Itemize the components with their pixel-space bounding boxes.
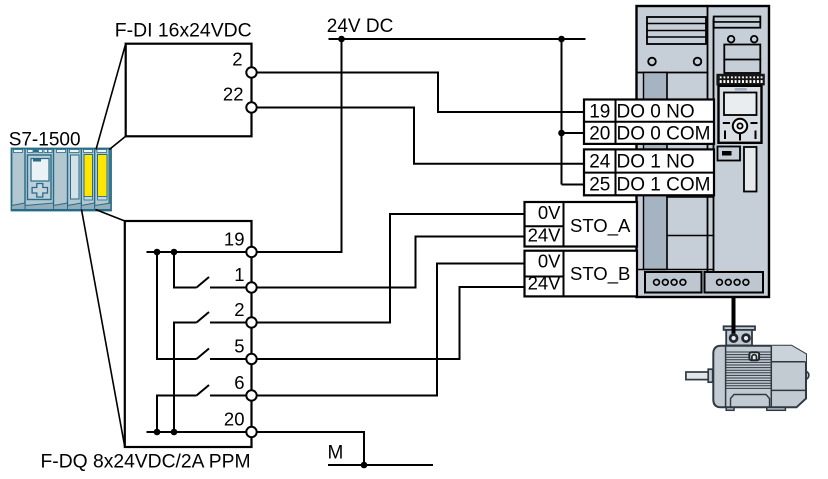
magnifier line F-DQ right: [96, 210, 125, 222]
motor base recess: [731, 395, 770, 408]
motor feet: [726, 404, 734, 410]
junction DO COM rail branch: [558, 130, 565, 137]
svg-text:DO 0 COM: DO 0 COM: [617, 124, 711, 145]
junction on 24V bus at DO COM rail: [558, 36, 565, 43]
junction terminal 19 rail A: [154, 249, 161, 256]
terminal F-DQ 1: [246, 282, 256, 292]
magnifier line F-DI bottom: [109, 136, 125, 149]
motor cable: [732, 297, 736, 334]
wire 24V bus to DO COM rail: [562, 39, 585, 185]
STO_A safety input terminal box: [525, 202, 638, 247]
wire rail 19 to switch S5: [157, 252, 197, 359]
node 24V DC bus: [329, 38, 586, 40]
motor end bump: [800, 371, 809, 380]
svg-text:6: 6: [234, 372, 244, 393]
svg-text:STO_B: STO_B: [570, 263, 630, 285]
svg-text:24: 24: [589, 152, 611, 173]
svg-text:24V: 24V: [528, 273, 562, 294]
wire F-DQ 2 to STO_A 0V: [257, 214, 525, 323]
drive U1 (SINAMICS converter): [637, 6, 770, 297]
svg-text:20: 20: [589, 124, 610, 145]
svg-text:0V: 0V: [538, 251, 561, 272]
svg-text:20: 20: [224, 409, 245, 430]
svg-text:25: 25: [589, 174, 610, 195]
wire terminal 19 feed line: [147, 251, 247, 253]
junction terminal 19 rail B: [171, 249, 178, 256]
wire F-DQ 6 to STO_B 0V: [257, 264, 525, 396]
wire rail 20 to switch S6: [157, 396, 197, 433]
svg-text:5: 5: [234, 336, 244, 357]
magnifier line F-DQ left: [82, 210, 125, 448]
motor emblem: [749, 352, 759, 360]
junction terminal 20 rail D: [171, 429, 178, 436]
junction terminal 20 rail C: [154, 429, 161, 436]
terminal F-DI 22: [246, 102, 256, 112]
svg-text:DO 0 NO: DO 0 NO: [617, 102, 695, 123]
motor body: [713, 346, 806, 408]
junction on 24V bus at FDQ19 rail: [338, 36, 345, 43]
motor terminal box: [724, 326, 755, 330]
svg-text:24V DC: 24V DC: [327, 16, 394, 37]
node M ground line: [328, 464, 433, 466]
wire S2 to terminal 2: [210, 322, 246, 324]
svg-text:DO 1 COM: DO 1 COM: [617, 174, 711, 195]
switch S2 blade: [197, 312, 210, 323]
drive terminal block left: [645, 272, 702, 293]
svg-text:M: M: [328, 443, 344, 464]
svg-text:0V: 0V: [538, 202, 561, 223]
wire F-DQ 20 to M ground: [257, 432, 364, 465]
terminal F-DQ 6: [246, 390, 256, 400]
motor M1: [686, 324, 809, 410]
PLC S7-1500: [12, 149, 112, 211]
svg-text:19: 19: [589, 102, 610, 123]
drive terminal block right: [705, 272, 764, 293]
DO 1 relay output terminal box: [584, 149, 714, 195]
svg-text:22: 22: [223, 84, 244, 105]
svg-text:S7-1500: S7-1500: [9, 129, 81, 150]
svg-text:1: 1: [234, 264, 244, 285]
STO_B safety input terminal box: [525, 251, 638, 297]
svg-text:19: 19: [224, 229, 245, 250]
wire terminal 20 return line: [147, 431, 247, 433]
F-DQ module box: [125, 221, 252, 447]
wire rail 19 to switch S1: [174, 252, 197, 288]
svg-text:STO_A: STO_A: [570, 215, 631, 237]
svg-text:2: 2: [232, 49, 242, 70]
motor shaft: [686, 372, 713, 380]
switch S5 blade: [197, 349, 210, 360]
terminal F-DQ 5: [246, 354, 256, 364]
switch S1 blade: [197, 277, 210, 288]
switch S6 blade: [197, 385, 210, 396]
wire S5 to terminal 5: [210, 358, 246, 360]
drive operator panel: [716, 74, 764, 86]
svg-text:F-DQ 8x24VDC/2A PPM: F-DQ 8x24VDC/2A PPM: [41, 452, 251, 473]
terminal F-DI 2: [246, 67, 256, 77]
svg-text:24V: 24V: [528, 225, 562, 246]
wire rail 20 to switch S2: [174, 323, 197, 433]
terminal F-DQ 20: [246, 427, 256, 437]
wire S1 to terminal 1: [210, 287, 246, 289]
wire F-DQ 1 to STO_A 24V: [257, 237, 525, 288]
terminal F-DQ 2: [246, 317, 256, 327]
wire F-DI 22 to DO 1 NO: [257, 108, 584, 164]
svg-text:DO 1 NO: DO 1 NO: [617, 152, 695, 173]
wire F-DQ 5 to STO_B 24V: [257, 287, 525, 359]
svg-text:2: 2: [234, 299, 244, 320]
junction M ground node: [361, 462, 368, 469]
F-DI module box: [126, 44, 252, 137]
terminal F-DQ 19: [246, 247, 256, 257]
DO 0 relay output terminal box: [584, 100, 714, 144]
wire F-DI 2 to DO 0 NO: [257, 73, 584, 113]
svg-text:F-DI 16x24VDC: F-DI 16x24VDC: [115, 19, 252, 41]
wire S6 to terminal 6: [210, 395, 246, 397]
wire 24V bus to F-DQ terminal 19: [257, 39, 342, 252]
magnifier line F-DI top: [96, 44, 126, 150]
motor fins: [726, 352, 772, 388]
